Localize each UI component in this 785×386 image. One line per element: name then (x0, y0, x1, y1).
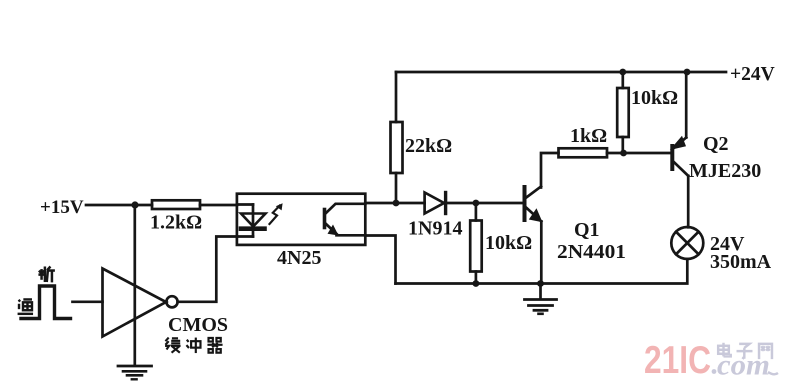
glyph dian (电) (718, 343, 731, 357)
wire Q2 emitter vertical from rail (685, 72, 688, 138)
glyph tong (通) (18, 299, 33, 313)
wire 10k mid bottom (475, 272, 478, 284)
svg-text:22kΩ: 22kΩ (405, 135, 452, 157)
wire rail left drop to 22k (395, 72, 398, 122)
lamp DS1 circle (671, 227, 703, 259)
svg-text:10kΩ: 10kΩ (631, 87, 678, 109)
node junction 10k/1k/Q2 base (620, 150, 627, 157)
watermark com tail swash (768, 372, 778, 374)
svg-text:MJE230: MJE230 (689, 160, 761, 182)
svg-text:350mA: 350mA (710, 251, 772, 273)
wire Q2 base (624, 152, 672, 155)
svg-text:CMOS: CMOS (168, 314, 228, 336)
wire 10k top to rail (621, 72, 624, 88)
svg-text:1kΩ: 1kΩ (570, 125, 607, 147)
glyph chong (冲) (186, 338, 200, 353)
transistor Q1 emitter diagonal (525, 207, 541, 222)
wire mid rail: opto collector to diode (365, 202, 424, 205)
wire buffer output to opto LED (178, 237, 237, 302)
transistor Q2 emitter diagonal (675, 138, 687, 148)
glyph duan (断) (38, 266, 54, 282)
watermark dianziwang (电子网) (718, 343, 772, 359)
transistor Q1 emitter arrow (NPN) (529, 208, 543, 222)
wire buffer input (73, 300, 103, 303)
transistor Q2 base bar (670, 146, 674, 169)
svg-text:21IC: 21IC (644, 339, 711, 382)
wire +24V top rail (396, 71, 726, 74)
wire 1k right (607, 152, 624, 155)
resistor R 1k body (559, 148, 608, 157)
wire 1k left and down to Q1 collector (541, 153, 559, 188)
opto phototransistor emitter (326, 224, 337, 234)
svg-text:4N25: 4N25 (277, 247, 321, 269)
transistor Q2 collector diagonal (674, 162, 688, 176)
glyph wang (网) (759, 344, 772, 359)
transistor Q1 collector diagonal (525, 187, 541, 199)
wire 22k bottom (395, 173, 398, 203)
node junction rail/10k (619, 69, 626, 76)
op-amp U2 CMOS buffer triangle (103, 269, 167, 337)
node junction 22k/opto/diode (393, 200, 400, 207)
opto LED vertical (252, 205, 255, 237)
opto LED cathode stub (237, 235, 253, 238)
svg-text:+15V: +15V (40, 197, 84, 218)
glyph huan (缓) (165, 338, 180, 353)
svg-text:+24V: +24V (730, 64, 775, 85)
resistor R 10k top body (617, 88, 629, 137)
svg-text:1N914: 1N914 (408, 218, 462, 240)
wire opto emitter down (365, 236, 395, 284)
buffer output bubble (166, 296, 177, 307)
wire 1.2k to opto (200, 204, 237, 207)
transistor Q1 base bar (523, 187, 527, 220)
svg-text:Q1: Q1 (574, 219, 600, 241)
node junction bottom 10k (473, 280, 480, 287)
opto light arrow (270, 206, 280, 225)
diode D1 cathode bar (444, 193, 447, 214)
resistor R 1.2k body (152, 200, 200, 209)
resistor R 22k body (391, 122, 403, 173)
opto LED anode stub (237, 203, 253, 206)
svg-text:2N4401: 2N4401 (557, 241, 626, 263)
opto LED triangle (241, 214, 266, 227)
wire diode to Q1 base (446, 202, 523, 205)
pulse waveform (21, 286, 71, 319)
wire 10k mid top (475, 203, 478, 221)
glyph zi (子) (737, 344, 753, 359)
wire Q1 emitter to bottom rail (540, 221, 543, 283)
resistor R 10k mid body (470, 221, 482, 272)
opto phototransistor collector (326, 204, 366, 214)
wire 10k bottom to base node (621, 137, 624, 153)
lamp DS1 X (676, 232, 699, 255)
opto phototransistor base bar (323, 210, 327, 228)
svg-text:Q2: Q2 (703, 133, 729, 155)
wire +15V feed (86, 204, 152, 207)
node junction 15V/buffer supply (131, 201, 138, 208)
opto emitter inside wire (337, 234, 366, 237)
svg-text:1.2kΩ: 1.2kΩ (150, 212, 202, 234)
wire buffer supply vertical (133, 205, 136, 366)
ground GND2 under buffer (118, 365, 152, 368)
transistor Q2 emitter arrow (PNP, points to base) (670, 136, 686, 150)
node junction bottom ground (537, 280, 544, 287)
glyph qi (器) (207, 338, 222, 353)
node junction rail/Q2 emitter (684, 69, 691, 76)
optocoupler U1 4N25 box (237, 194, 365, 245)
wire lamp bottom to rail (396, 259, 688, 284)
svg-text:10kΩ: 10kΩ (485, 232, 532, 254)
wire Q2 collector to lamp (687, 176, 690, 228)
node junction diode/10k mid (473, 200, 480, 207)
opto LED cathode bar (241, 226, 265, 231)
ground GND1 under Q1 (539, 284, 542, 300)
diode D1 1N914 triangle (425, 193, 444, 214)
